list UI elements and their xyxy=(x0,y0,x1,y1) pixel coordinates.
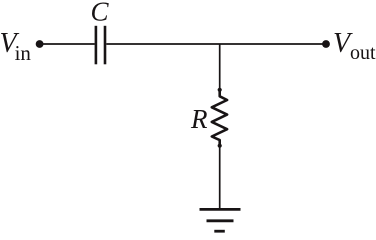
svg-text:in: in xyxy=(15,41,32,65)
svg-text:C: C xyxy=(91,0,110,27)
wire xyxy=(106,43,323,45)
resistor R xyxy=(190,88,227,148)
node Vin xyxy=(0,28,43,65)
ground xyxy=(200,209,241,231)
wire xyxy=(219,44,221,89)
capacitor C xyxy=(91,0,110,64)
wire xyxy=(219,146,221,208)
svg-text:out: out xyxy=(350,42,376,64)
wire xyxy=(42,43,95,45)
svg-text:R: R xyxy=(190,104,208,134)
node Vout xyxy=(322,28,376,64)
